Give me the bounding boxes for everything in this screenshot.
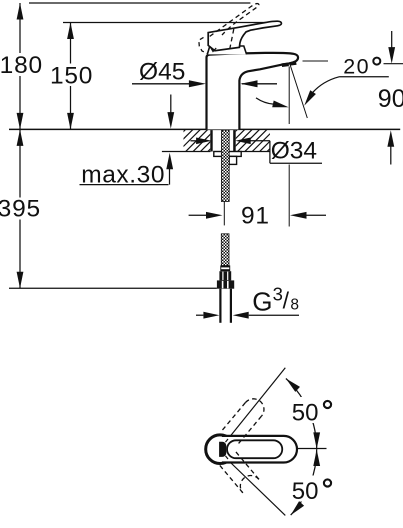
svg-text:91: 91 — [241, 203, 270, 230]
svg-text:395: 395 — [0, 195, 41, 222]
svg-text:50: 50 — [292, 478, 319, 505]
svg-text:3: 3 — [273, 284, 283, 305]
svg-text:90: 90 — [378, 85, 403, 113]
svg-text:/: / — [283, 288, 290, 314]
svg-text:8: 8 — [290, 297, 299, 314]
svg-text:50: 50 — [292, 399, 319, 426]
svg-text:Ø45: Ø45 — [139, 59, 185, 86]
svg-text:Ø34: Ø34 — [271, 138, 317, 165]
svg-text:G: G — [252, 287, 272, 317]
svg-text:150: 150 — [50, 62, 93, 89]
svg-text:20: 20 — [343, 55, 370, 79]
svg-text:180: 180 — [0, 52, 43, 79]
